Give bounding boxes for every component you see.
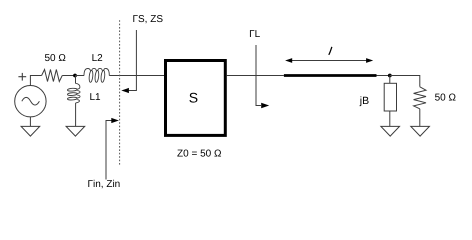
ground under load resistor: [411, 126, 430, 136]
transmission line TL1 (thick): [284, 74, 377, 77]
wire node A to L2: [75, 75, 84, 77]
resistor R2 50 ohm (load, vertical): [414, 87, 426, 109]
wire node A down to L1: [75, 76, 77, 84]
wire transmission line to node B: [377, 75, 390, 77]
wire source bottom to ground: [29, 117, 31, 127]
svg-text:L1: L1: [90, 92, 102, 103]
wire resistor to node A: [62, 75, 75, 77]
arrow for Gamma-S pointing left to reference plane: [129, 30, 137, 91]
label l (line length): [329, 47, 332, 55]
length dimension arrow: [291, 60, 368, 62]
wire source top to resistor: [30, 76, 41, 86]
svg-text:50 Ω: 50 Ω: [435, 92, 457, 103]
svg-text:Z0 = 50 Ω: Z0 = 50 Ω: [177, 149, 222, 160]
svg-text:ΓL: ΓL: [249, 29, 261, 40]
ground under L1: [66, 126, 85, 136]
arrow for Gamma-in pointing right to reference plane: [106, 121, 112, 180]
svg-text:S: S: [189, 89, 198, 105]
arrow for Gamma-L pointing right: [256, 45, 261, 106]
inductor L1 coil: [67, 83, 80, 103]
wire S box to transmission line: [226, 75, 284, 77]
two-port S-parameter box U1: [166, 61, 226, 136]
svg-text:50 Ω: 50 Ω: [45, 53, 67, 64]
wire L2 to S box: [109, 75, 164, 77]
svg-text:L2: L2: [92, 53, 104, 64]
svg-text:Γin, Zin: Γin, Zin: [88, 179, 121, 190]
ground under source: [21, 126, 40, 136]
plus sign of source: [18, 73, 26, 81]
svg-text:jB: jB: [359, 95, 369, 107]
node A junction dot: [73, 74, 77, 78]
wire L1 to ground: [75, 103, 77, 127]
wire node B down to jB stub: [389, 76, 391, 84]
reference plane dashed line: [119, 20, 121, 166]
AC source V1: [15, 86, 46, 117]
node B junction dot: [388, 74, 392, 78]
svg-text:ΓS, ZS: ΓS, ZS: [133, 14, 164, 25]
wire load resistor to ground: [419, 109, 421, 127]
wire jB box to ground: [389, 111, 391, 126]
ground under jB: [381, 126, 400, 136]
inductor L2 coil: [84, 68, 109, 82]
wire node B to 50 ohm load: [390, 76, 420, 87]
stub susceptance jB box: [384, 83, 396, 111]
resistor R1 50 ohm (source): [42, 70, 63, 82]
